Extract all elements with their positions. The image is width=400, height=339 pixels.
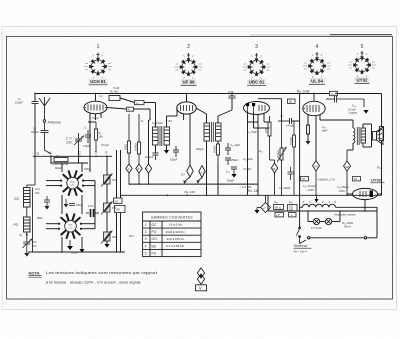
triode-hexode V1 envelope [84, 101, 107, 114]
boxed L [289, 213, 297, 218]
pentode V2 electrodes [181, 105, 193, 111]
phase indicator double diamond [197, 268, 204, 284]
node C [79, 151, 82, 157]
tube socket V3 UBC 81 [243, 53, 271, 79]
wire bottom-left bus [28, 251, 125, 253]
coupling capacitor C14 [288, 167, 294, 180]
capacitor C17 [278, 118, 300, 124]
capacitor C6 box [135, 101, 145, 105]
rectifier V5 label UY92 [371, 178, 385, 183]
boxed ref 78 [301, 177, 309, 182]
starburst L2 side wires [46, 181, 95, 229]
trimmer OC [101, 174, 113, 187]
IF transformer T1 left coil [153, 127, 159, 145]
resistor R8 vertical [217, 144, 220, 162]
antenna [39, 97, 50, 127]
table row 4 [145, 244, 185, 248]
capacitor C8 [173, 146, 179, 157]
tube socket V1 UCH 81 [84, 53, 112, 79]
wire V1 cathode drop [148, 120, 150, 164]
duodiode-triode V3 electrodes [246, 103, 265, 112]
capacitor C7 [153, 153, 159, 160]
table row 1 [145, 223, 183, 227]
diamond M5 [196, 166, 205, 184]
output transformer core [357, 127, 359, 145]
dial lamp LP2 [325, 218, 331, 224]
padder capacitor C24 [44, 196, 50, 206]
tube socket V4 UL 84 [303, 52, 331, 78]
wire AVC bus [33, 155, 112, 157]
resistor R2 [109, 96, 120, 101]
output pentode V4 leads [307, 94, 353, 161]
switch S1 [296, 227, 300, 241]
boxed 68 ohm [274, 205, 284, 210]
diamond M7 [313, 161, 320, 196]
boxed LP [275, 213, 284, 218]
trimmer column wire [106, 156, 108, 244]
right edge resistor box [379, 127, 383, 141]
mains wires [268, 195, 377, 243]
label Secteur [294, 243, 312, 248]
wire HT top bus [35, 93, 336, 95]
capacitor C4 [41, 127, 52, 154]
output pentode V4 envelope [303, 101, 325, 115]
border frame [7, 37, 393, 300]
variable capacitor CV osc [74, 133, 84, 150]
node D [95, 151, 98, 158]
ground M9 [254, 208, 259, 214]
ground padder [44, 206, 49, 210]
wire V1 to IF1 [107, 98, 156, 127]
capacitor C1 [32, 102, 39, 104]
capacitor C12 [225, 158, 231, 165]
rectifier V5 leads [347, 194, 382, 211]
dial lamp LP1 [313, 218, 319, 224]
tube socket V2 label UF 89 [181, 79, 197, 85]
capacitor C10 47pF [229, 96, 236, 98]
IF transformer T2 left coil [204, 123, 210, 141]
resistor R1 [54, 158, 68, 162]
ground right of L2 [79, 247, 84, 253]
capacitor C23 bold [91, 209, 94, 217]
resistor R6 vertical [137, 114, 140, 164]
trimmer PO [101, 202, 113, 215]
diamond M9 [257, 195, 271, 212]
diamond M2 [136, 164, 142, 184]
capacitor C22 [69, 204, 75, 206]
tube socket V5 UY 92 [348, 51, 376, 77]
ground under L2 [67, 240, 73, 250]
rectifier V5 envelope [353, 188, 378, 199]
duodiode-triode V3 leads [232, 94, 282, 196]
IF transformer T1 right coil [164, 127, 170, 145]
node K [106, 151, 109, 158]
capacitor C11 [225, 143, 231, 155]
resistor R3 vertical [94, 122, 97, 152]
ground between coils [64, 199, 69, 207]
boxed V symbol [196, 285, 207, 291]
wire V3 zone [218, 102, 270, 196]
ground left bottom [24, 250, 29, 257]
tube socket V5 label UY92 [355, 77, 370, 83]
diamond M3 [145, 164, 151, 184]
triode-hexode V1 leads [88, 94, 101, 161]
diamond M1 [126, 164, 132, 184]
ground C13 [231, 174, 236, 178]
diamond M4 [181, 165, 193, 184]
boxed ref 92 [353, 177, 361, 182]
tube socket V4 label UL 84 [309, 78, 325, 84]
ground trimmer column [104, 244, 109, 248]
speaker [373, 127, 384, 145]
coil cluster wires [51, 150, 90, 252]
triode-hexode V1 electrodes [85, 105, 107, 111]
oscillator transformer L2 starburst [61, 214, 80, 238]
wire left vertical [34, 94, 36, 102]
antenna coil L4 PO [24, 217, 31, 232]
trimmer GO [101, 231, 113, 244]
component box K1 [114, 198, 123, 204]
boxed 210 230 [288, 205, 298, 212]
starburst L1 side wires [46, 181, 95, 186]
oscillator transformer L1 starburst [63, 171, 82, 195]
IF T2 leads [196, 108, 232, 195]
wire chassis bus [121, 194, 382, 196]
tube socket V1 label UCH 81 [89, 79, 108, 85]
wire AVC return bus [130, 183, 259, 185]
rectifier V5 electrodes [360, 191, 373, 198]
wire heater bus [268, 210, 377, 212]
capacitor C13 [231, 167, 237, 174]
capacitor C6b box [127, 107, 134, 111]
IF transformer T2 right coil [216, 123, 222, 141]
table row 3 [145, 237, 185, 241]
duodiode-triode V3 envelope [244, 102, 270, 115]
IF transformer T1 core [160, 126, 162, 146]
antenna coil L3 GO [24, 188, 31, 208]
tube socket V2 UF 89 [175, 53, 203, 79]
component box K2 [115, 206, 126, 213]
V3 ref box [288, 99, 296, 104]
pentode V2 envelope [177, 102, 197, 114]
resistor R18 vertical [293, 121, 296, 195]
tube socket V3 label UBC 81 [247, 79, 266, 85]
potentiometer arrow R10 [277, 147, 287, 162]
diamond M6 [270, 160, 278, 195]
IF transformer T2 core [212, 122, 214, 142]
output transformer right coil [361, 128, 366, 143]
node N [20, 234, 28, 238]
NOTA heading [29, 271, 42, 278]
heater chain filament scallops [300, 204, 377, 207]
heater chain arrow [315, 195, 319, 203]
ground C19 [363, 110, 368, 114]
right edge vertical wire [336, 94, 382, 196]
output pentode V4 electrodes [304, 105, 320, 112]
wire bus down to V4 grid [291, 94, 300, 228]
ground V4 cathode [305, 141, 310, 145]
resistor R9 vertical right of V3 [268, 116, 271, 160]
output transformer left coil [353, 126, 355, 143]
table row 5 [145, 251, 157, 255]
variable capacitor CV Acc [22, 239, 32, 251]
top scan streak line [250, 34, 392, 36]
diamond M8 [344, 150, 351, 195]
IF T1 leads [156, 108, 178, 153]
V4 ref box [330, 91, 338, 96]
wire switch verticals [117, 150, 121, 252]
pentode V2 leads [184, 94, 190, 166]
ground IF T1 [164, 150, 169, 154]
resistor R5 vertical [127, 114, 130, 164]
left column wires [27, 156, 35, 252]
dial lamp wires [308, 211, 340, 222]
table GAMMES COUVERTES frame [143, 212, 201, 257]
capacitor C5 47kpF [85, 130, 91, 143]
node G [34, 152, 39, 158]
table row 2 [145, 230, 186, 234]
node A [49, 151, 52, 157]
capacitor C23 leads [86, 212, 99, 214]
output transformer leads [347, 124, 372, 150]
top scan streak dark [330, 34, 392, 36]
capacitor C19 [326, 96, 364, 108]
resistor R10 vertical [280, 121, 283, 195]
